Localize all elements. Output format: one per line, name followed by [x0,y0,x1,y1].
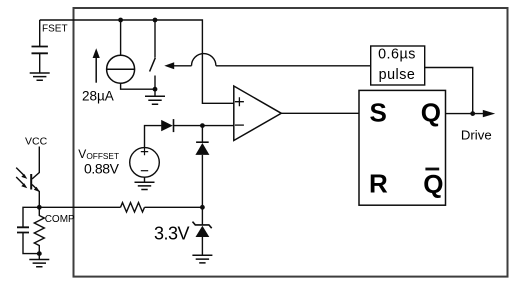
wire FSET pin down to capacitor [39,20,41,46]
svg-text:Q: Q [423,169,443,199]
wire current source top stub [120,20,122,55]
SR latch U2 [359,90,446,205]
phototransistor Q1 [30,174,32,190]
ground (switch) [154,89,156,96]
voltage source V_OFFSET [130,148,160,178]
wire current source bottom to switch ground node [121,83,155,89]
ground (V_OFFSET) [144,177,146,182]
arrow Drive output [483,110,495,117]
overbar on Q-bar [425,168,439,171]
wire Q output to pulse box input [425,68,473,114]
node FSET / current source junction [118,18,123,23]
svg-text:3.3V: 3.3V [154,224,190,244]
node R1 / zener junction [200,205,205,210]
wire diode D1 to comparator - input [174,125,234,127]
svg-text:Drive: Drive [461,128,492,143]
svg-text:0.88V: 0.88V [84,161,120,177]
wire hop over vertical line [192,54,216,66]
op-amp comparator U1 [234,86,281,141]
node switch / ground junction [153,87,158,92]
resistor R2 (COMP, vertical) [34,207,44,253]
capacitor C2 (COMP) [17,227,29,232]
diode D1 (series) [161,120,173,131]
svg-text:28µA: 28µA [82,89,114,104]
svg-text:COMP: COMP [45,214,75,225]
svg-text:S: S [370,98,387,128]
switch S1 [154,20,156,58]
svg-text:pulse: pulse [379,67,416,83]
svg-text:VCC: VCC [25,136,48,148]
wire V_OFFSET to diode D1 [145,126,162,148]
wire R1 to zener node [145,206,203,208]
svg-text:R: R [369,169,388,199]
wire Q output to Drive arrow [446,113,484,115]
wire COMP node left to capacitor branch [23,207,39,227]
current source I1 (circle with bar) [107,55,135,83]
svg-text:FSET: FSET [42,24,68,35]
wire FSET top rail to comparator + input [40,20,234,103]
svg-text:0.6µs: 0.6µs [378,46,416,62]
node D1 / clamp junction [200,123,205,128]
resistor R1 (horizontal) [121,203,145,212]
node RC bottom junction [37,251,42,256]
node COMP pin junction [37,205,42,210]
zener diode D3 (3.3V) [201,207,203,225]
wire comparator output to S input [281,112,359,114]
ground (FSET capacitor) [30,73,50,80]
ground (zener) [192,255,212,263]
wire pulse output to switch (arrowhead) [164,62,174,69]
diode D2 (clamp, pointing up) [201,126,203,143]
ground (COMP RC) [38,254,40,260]
arrow current direction (up) [95,57,97,83]
light arrows into phototransistor [16,168,25,177]
node Q / pulse feedback junction [470,111,475,116]
svg-text:Q: Q [421,98,441,128]
node FSET / switch junction [153,18,158,23]
wire COMP pin into IC [39,206,120,208]
wire VCC to phototransistor collector [32,147,39,180]
IC boundary box [74,8,508,277]
capacitor C1 (FSET) [32,47,48,54]
pulse generator box 0.6us [371,46,425,85]
